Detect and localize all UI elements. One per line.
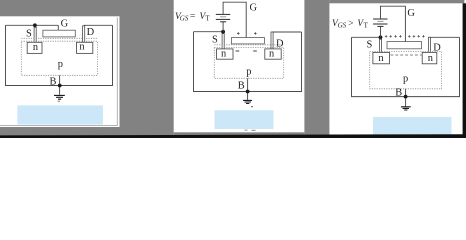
contact S metal (panel 1) <box>34 27 36 42</box>
svg-text:G: G <box>407 8 415 19</box>
wire: top edge right segment to D (panel 1) <box>84 24 113 26</box>
svg-text:S: S <box>26 28 32 39</box>
svg-text:n: n <box>378 53 384 64</box>
svg-text:n: n <box>269 49 275 60</box>
wire: body B lead (panel 2) <box>247 78 249 100</box>
svg-text:n: n <box>33 42 39 53</box>
wire: top edge left segment to S node (panel 2) <box>194 31 224 33</box>
wire: top edge left segment to S node (panel 3) <box>352 36 381 38</box>
node S junction dot (panel 3) <box>379 35 383 39</box>
n+ drain region box (panel 2) <box>265 49 281 59</box>
node B junction dot (panel 2) <box>246 90 250 94</box>
svg-text:D: D <box>276 39 284 50</box>
svg-text:GS: GS <box>338 22 347 30</box>
gray header band over panel 1 <box>0 0 120 16</box>
wire: outer loop left/bottom/right of device 3 <box>352 37 460 96</box>
svg-text:p: p <box>246 66 251 77</box>
background panels <box>0 0 466 138</box>
node S junction dot (panel 1) <box>33 23 37 27</box>
contact D metal (panel 1) <box>83 26 85 43</box>
svg-text:p: p <box>58 59 63 70</box>
wire: outer loop left/bottom/right of device 1 <box>6 25 113 85</box>
panel 1 tile border (right and bottom light frame) <box>0 18 117 126</box>
ground symbol (panel 2) <box>243 100 252 103</box>
wire: battery positive lead up and over to gate (panel 3) <box>381 6 406 41</box>
contact D metal (panel 3) <box>428 37 430 52</box>
n+ source region box (panel 3) <box>373 52 390 63</box>
node B junction dot (panel 1) <box>58 84 62 88</box>
svg-text:>: > <box>348 19 353 29</box>
contact S metal (panel 3) <box>380 39 382 52</box>
blue caption box panel 3 <box>373 117 452 134</box>
gate positive charge + signs row (panel 3) <box>385 35 425 38</box>
gray column between panel 1 and 2 <box>120 0 174 136</box>
svg-text:D: D <box>433 43 441 54</box>
n+ source region box (panel 2) <box>217 49 234 59</box>
svg-text:G: G <box>250 3 258 14</box>
blue caption box panel 1 <box>17 105 103 124</box>
labels panel 1 <box>26 18 95 87</box>
n+ source region box (panel 1) <box>27 42 42 53</box>
svg-text:n: n <box>79 42 85 53</box>
black right border <box>463 3 466 136</box>
wire: battery negative lead down to S node (panel 2) <box>222 22 224 32</box>
wire: battery negative lead down to S node (panel 3) <box>380 27 382 37</box>
contact D metal (panel 2) <box>271 32 273 49</box>
wire: top edge right segment from D contact (panel 2) <box>272 31 302 33</box>
ground symbol (panel 3) <box>401 107 411 110</box>
node S junction dot (panel 2) <box>221 30 225 34</box>
wire: top edge left segment S-G short (panel 1) <box>6 24 59 26</box>
svg-text:=: = <box>190 12 195 22</box>
gray column between panel 2 and 3 <box>304 0 329 135</box>
contact S metal (panel 2) <box>222 34 224 49</box>
svg-text:B: B <box>50 77 57 88</box>
oxide bottom line (panel 2) <box>214 44 283 46</box>
oxide bottom line (panel 1) <box>21 37 97 39</box>
svg-text:n: n <box>428 53 434 64</box>
caption remnant speck under panel 1 ground <box>58 101 60 102</box>
svg-text:n: n <box>221 49 227 60</box>
gate positive charge + signs (panel 2) <box>237 32 257 35</box>
p substrate dotted boundary (panel 2) <box>214 48 283 79</box>
svg-text:GS: GS <box>180 15 189 23</box>
gray bottom band under panel 1 <box>0 127 120 136</box>
gray bottom strip under panel 2 <box>174 132 305 136</box>
wire: top edge right segment from D contact (panel 3) <box>430 36 460 38</box>
wire: body B lead (panel 3) <box>405 89 407 107</box>
p substrate dotted boundary (panel 3) <box>370 52 442 89</box>
wire: gate connector G (panel 1) <box>57 25 59 30</box>
svg-text:T: T <box>364 21 369 29</box>
gray top strip over panel 3 <box>329 0 464 3</box>
labels panel 2 <box>175 3 284 131</box>
svg-text:S: S <box>212 35 218 46</box>
battery VGS cell (panel 2) <box>216 14 230 21</box>
wire: battery positive lead up and over to gate (panel 2) <box>223 2 246 37</box>
wire: body B lead (panel 1) <box>59 75 61 95</box>
depletion negative charge - signs (panel 2) <box>236 50 257 52</box>
caption remnant specks under panel 2 <box>251 106 253 107</box>
svg-text:B: B <box>238 80 245 91</box>
svg-text:B: B <box>395 87 402 98</box>
svg-text:p: p <box>403 73 408 84</box>
labels panel 3 <box>332 8 441 98</box>
svg-text:T: T <box>205 14 210 22</box>
wire: outer loop left/bottom/right of device 2 <box>194 32 302 92</box>
ground symbol (panel 1) <box>54 95 65 99</box>
gate electrode plate (panel 2) <box>232 38 265 44</box>
svg-text:S: S <box>367 40 373 51</box>
p substrate dotted boundary (panel 1) <box>21 41 97 75</box>
black bottom border line (slightly sloped) <box>0 134 466 138</box>
gate electrode plate (panel 1) <box>43 30 75 37</box>
induced n channel dashed line (panel 3) <box>391 54 422 56</box>
blue caption box panel 2 <box>215 110 274 129</box>
n+ drain region box (panel 1) <box>77 42 93 53</box>
n+ drain region box (panel 3) <box>422 52 437 63</box>
battery VGS cell (panel 3) <box>373 19 387 26</box>
svg-text:D: D <box>87 27 95 38</box>
gate electrode plate (panel 3) <box>387 42 422 49</box>
node B junction dot (panel 3) <box>404 95 408 99</box>
svg-text:G: G <box>61 18 69 29</box>
